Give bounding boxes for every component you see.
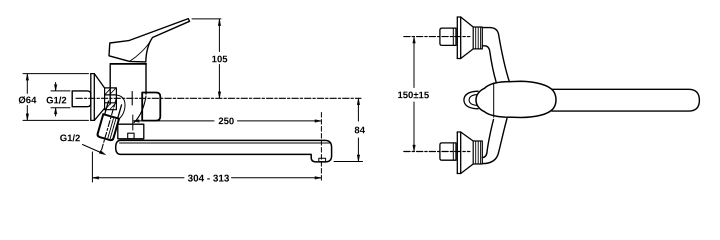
escutcheon (wall flange, side view) <box>91 74 105 121</box>
angled supply pipe (bottom G1/2 connection) <box>93 95 124 154</box>
dim Ø64 line <box>26 74 28 119</box>
spout base collar <box>118 124 144 139</box>
svg-text:304 - 313: 304 - 313 <box>188 173 230 184</box>
top mounting nut <box>473 27 482 49</box>
svg-text:G1/2: G1/2 <box>60 133 81 144</box>
centerline top connection <box>404 36 470 38</box>
G1/2 wall connector <box>72 91 91 107</box>
aerator detail <box>319 158 326 162</box>
lever handle (side view) <box>109 19 190 62</box>
bottom arm <box>482 119 507 164</box>
dim 84 extension line <box>334 161 363 163</box>
svg-text:84: 84 <box>354 125 365 136</box>
svg-text:Ø64: Ø64 <box>18 95 37 106</box>
svg-text:105: 105 <box>212 54 229 65</box>
label Ø64 <box>17 94 38 106</box>
centerline bottom connection <box>404 151 470 153</box>
blob divider line <box>493 83 495 117</box>
body to spout transition curves <box>134 96 146 123</box>
outlet dashed axis <box>320 113 322 183</box>
label G1/2 top <box>45 94 68 107</box>
dim 304-313 line <box>93 177 320 179</box>
dim 105 extension line <box>192 18 221 20</box>
top arm <box>482 28 509 83</box>
spout (long tube, side view) <box>116 140 332 162</box>
spout (top view, stadium) <box>552 89 699 111</box>
dim Ø64 extension lines <box>23 74 89 121</box>
label 304 - 313 <box>188 173 230 184</box>
dim G1/2 extension lines <box>51 91 70 108</box>
spout top inner line <box>120 142 331 144</box>
label 84 <box>354 125 365 136</box>
body inner line <box>131 92 133 106</box>
mounting nut (hatched) <box>105 88 117 110</box>
handle blob (top view) <box>476 81 556 117</box>
pipe axis centerline <box>101 97 117 152</box>
bottom supply fitting <box>440 143 456 160</box>
label 250 <box>218 116 234 127</box>
temperature knob (top view) <box>464 91 478 109</box>
dim 250 extension line <box>132 115 134 130</box>
top escutcheon <box>457 17 473 59</box>
bottom mounting nut <box>473 141 482 164</box>
top supply fitting <box>440 28 456 45</box>
dim 250 line <box>134 120 321 122</box>
spout connector (swivel nut, side view) <box>142 93 160 121</box>
centerline horizontal (left side view axis) <box>76 97 361 99</box>
dim G1/2 arrows <box>55 83 57 117</box>
dim 150±15 line <box>413 37 416 152</box>
wall plane extension line <box>91 152 93 182</box>
dim 84 line <box>357 99 359 161</box>
svg-text:150±15: 150±15 <box>397 90 429 101</box>
lever sculpt curve <box>130 41 151 61</box>
label 150±15 <box>397 90 429 101</box>
svg-text:G1/2: G1/2 <box>46 95 67 106</box>
faucet body (cartridge housing, side view) <box>110 65 146 105</box>
dome cap top line <box>110 63 146 65</box>
label G1/2 bottom <box>57 132 82 145</box>
bottom escutcheon <box>457 132 473 174</box>
label 105 <box>212 54 229 65</box>
dim 105 line <box>218 20 220 98</box>
svg-text:250: 250 <box>218 116 234 127</box>
G1/2 leader arrow <box>83 145 104 154</box>
